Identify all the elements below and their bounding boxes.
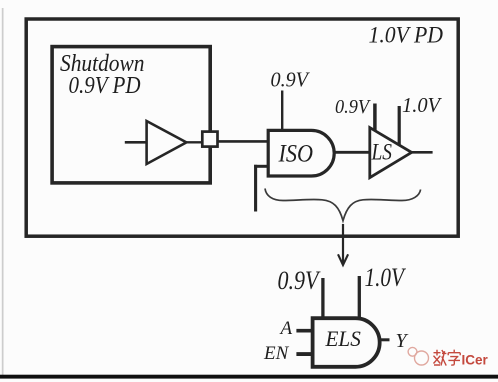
svg-text:ELS: ELS <box>325 326 361 351</box>
svg-text:0.9V: 0.9V <box>271 67 311 91</box>
svg-text:A: A <box>279 318 293 339</box>
svg-text:ISO: ISO <box>278 141 313 168</box>
svg-text:LS: LS <box>371 139 393 164</box>
svg-text:0.9V: 0.9V <box>278 266 322 295</box>
svg-text:ICer: ICer <box>462 353 489 368</box>
svg-text:1.0V: 1.0V <box>365 263 407 292</box>
svg-text:Y: Y <box>396 330 409 352</box>
svg-text:0.9V PD: 0.9V PD <box>69 73 141 99</box>
svg-text:0.9V: 0.9V <box>335 96 371 118</box>
svg-text:EN: EN <box>263 343 290 364</box>
svg-text:1.0V: 1.0V <box>402 93 442 117</box>
svg-text:1.0V PD: 1.0V PD <box>369 23 444 49</box>
